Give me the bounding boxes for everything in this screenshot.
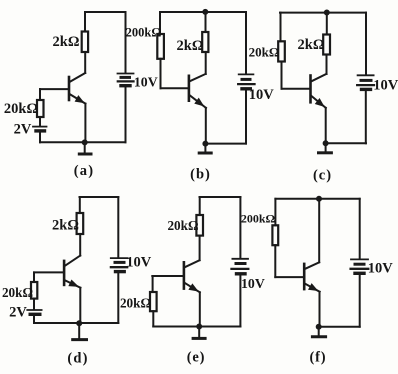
wire: circuit (c) bottom rail bbox=[326, 142, 366, 144]
wire: circuit (c) top rail bbox=[280, 12, 366, 14]
wire: circuit (d) emitter down bbox=[79, 288, 81, 323]
svg-text:(f): (f) bbox=[310, 350, 327, 366]
battery 10V (c) bbox=[358, 74, 374, 76]
wire: circuit (b) mid branch lower bbox=[205, 52, 207, 74]
wire: circuit (e) collector branch lower bbox=[199, 236, 201, 261]
wire: circuit (a) collector branch upper bbox=[84, 12, 86, 32]
transistor (f) NPN bbox=[303, 264, 306, 289]
wire: circuit (a) right rail upper bbox=[125, 12, 127, 73]
svg-text:20kΩ: 20kΩ bbox=[2, 285, 33, 300]
transistor (e) NPN bbox=[183, 262, 186, 288]
wire: 20kΩ to bottom rail (e) bbox=[152, 311, 154, 326]
resistor 20kΩ (e) base bbox=[150, 292, 157, 311]
wire: circuit (b) left branch lower bbox=[160, 59, 162, 89]
wire: circuit (e) emitter down bbox=[199, 292, 201, 326]
transistor (b) NPN bbox=[188, 76, 191, 101]
svg-text:2kΩ: 2kΩ bbox=[53, 34, 80, 50]
wire: circuit (c) right rail upper bbox=[365, 13, 367, 75]
wire: circuit (b) right rail lower bbox=[245, 89, 247, 143]
transistor (d) NPN bbox=[63, 261, 66, 285]
svg-text:20kΩ: 20kΩ bbox=[4, 101, 38, 117]
resistor 2kΩ (d) collector bbox=[77, 213, 84, 234]
transistor (a) NPN bbox=[68, 77, 71, 100]
node: emitter junction (f) bbox=[316, 324, 321, 329]
svg-text:2V: 2V bbox=[9, 305, 27, 321]
wire: circuit (b) emitter down bbox=[205, 108, 207, 144]
wire: circuit (a) bottom rail bbox=[40, 141, 126, 143]
wire: circuit (d) collector branch lower bbox=[79, 234, 81, 256]
wire: circuit (f) bottom rail bbox=[319, 326, 360, 328]
wire: circuit (f) collector branch bbox=[318, 199, 320, 262]
battery 10V (a) bbox=[118, 73, 134, 75]
wire: circuit (c) left branch lower bbox=[281, 62, 283, 89]
wire: circuit (e) base branch down bbox=[152, 276, 154, 292]
wire: 20kΩ to 2V battery (a) bbox=[39, 117, 41, 126]
wire: circuit (e) right rail upper bbox=[239, 197, 241, 258]
wire: circuit (c) mid branch upper bbox=[326, 13, 328, 35]
resistor 20kΩ (a) base bbox=[37, 100, 44, 117]
battery 10V (d) bbox=[111, 257, 128, 259]
wire: circuit (d) base branch down bbox=[33, 272, 35, 282]
resistor 200kΩ (f) base bbox=[272, 225, 278, 245]
wire: circuit (a) base branch down bbox=[39, 89, 41, 100]
wire: circuit (b) base wire bbox=[161, 87, 189, 89]
wire: circuit (a) top rail bbox=[85, 11, 126, 13]
wire: circuit (b) bottom rail bbox=[205, 143, 246, 145]
wire: circuit (f) left branch upper bbox=[274, 199, 276, 226]
svg-text:10V: 10V bbox=[368, 261, 394, 277]
wire: 20kΩ to 2V battery (d) bbox=[33, 299, 35, 310]
wire: circuit (c) left branch upper bbox=[280, 13, 282, 42]
svg-text:10V: 10V bbox=[134, 75, 158, 90]
wire: circuit (d) base wire bbox=[34, 271, 64, 273]
svg-text:2kΩ: 2kΩ bbox=[52, 218, 79, 234]
battery 10V (b) bbox=[239, 73, 254, 75]
svg-text:10V: 10V bbox=[241, 276, 265, 291]
svg-text:(c): (c) bbox=[313, 168, 332, 184]
wire: circuit (e) base wire bbox=[152, 275, 183, 277]
ground (c) bbox=[325, 143, 327, 152]
wire: circuit (f) right rail lower bbox=[359, 274, 361, 327]
wire: circuit (f) top rail bbox=[275, 198, 359, 200]
node: emitter junction (c) bbox=[323, 141, 328, 146]
battery 10V (e) bbox=[232, 258, 248, 260]
wire: circuit (b) mid branch upper bbox=[205, 12, 207, 32]
wire: circuit (d) collector branch upper bbox=[79, 197, 81, 213]
svg-text:10V: 10V bbox=[126, 255, 152, 271]
node: top rail junction (c) bbox=[324, 10, 329, 15]
wire: circuit (f) base wire bbox=[275, 276, 303, 278]
resistor 2kΩ (a) collector bbox=[82, 32, 88, 53]
wire: circuit (c) base wire bbox=[282, 88, 311, 90]
wire: circuit (c) right rail lower bbox=[365, 90, 367, 144]
wire: circuit (a) collector branch lower bbox=[84, 52, 86, 73]
node: emitter junction (e) bbox=[197, 324, 202, 329]
resistor 2kΩ (b) collector bbox=[202, 32, 208, 52]
wire: circuit (d) right rail upper bbox=[117, 197, 119, 257]
ground (d) bbox=[78, 323, 80, 339]
wire: circuit (e) right rail lower bbox=[239, 274, 241, 326]
svg-text:(b): (b) bbox=[190, 167, 211, 183]
ground (a) bbox=[84, 142, 86, 153]
node: emitter junction (a) bbox=[82, 140, 87, 145]
svg-text:(e): (e) bbox=[187, 350, 206, 366]
wire: circuit (b) top rail bbox=[160, 11, 246, 13]
wire: 2V battery to bottom rail (a) bbox=[39, 133, 41, 143]
resistor 20kΩ (d) base bbox=[31, 282, 37, 299]
wire: circuit (b) left branch upper bbox=[159, 12, 161, 34]
svg-text:20kΩ: 20kΩ bbox=[167, 218, 198, 233]
svg-text:(a): (a) bbox=[74, 163, 95, 179]
node: top rail junction (b) bbox=[203, 9, 208, 14]
svg-text:200kΩ: 200kΩ bbox=[241, 211, 276, 225]
battery 2V (a) bbox=[33, 126, 47, 128]
wire: circuit (f) left branch lower bbox=[274, 245, 276, 277]
wire: circuit (f) emitter down bbox=[319, 292, 321, 327]
wire: circuit (a) emitter down bbox=[84, 104, 86, 143]
svg-text:2kΩ: 2kΩ bbox=[298, 37, 325, 53]
svg-text:20kΩ: 20kΩ bbox=[120, 296, 151, 311]
node: emitter junction (d) bbox=[77, 321, 82, 326]
svg-text:(d): (d) bbox=[67, 351, 88, 367]
wire: circuit (c) emitter down bbox=[325, 108, 327, 143]
wire: circuit (e) top rail bbox=[200, 196, 241, 198]
ground (f) bbox=[318, 327, 320, 337]
wire: circuit (d) right rail lower bbox=[117, 272, 119, 323]
wire: circuit (c) mid branch lower bbox=[326, 55, 328, 74]
ground (b) bbox=[204, 144, 206, 153]
transistor (c) NPN bbox=[309, 76, 312, 103]
wire: circuit (e) bottom rail bbox=[153, 326, 240, 328]
wire: 2V battery to bottom rail (d) bbox=[33, 316, 35, 323]
svg-text:20kΩ: 20kΩ bbox=[249, 45, 280, 60]
battery 10V (f) bbox=[351, 258, 368, 260]
svg-text:10V: 10V bbox=[249, 87, 275, 103]
wire: circuit (a) right rail lower bbox=[125, 87, 127, 143]
wire: circuit (d) bottom rail bbox=[34, 322, 118, 324]
svg-text:2kΩ: 2kΩ bbox=[177, 38, 204, 54]
wire: circuit (a) base wire bbox=[40, 88, 69, 90]
ground (e) bbox=[198, 327, 200, 338]
wire: circuit (f) right rail upper bbox=[359, 199, 361, 259]
battery 2V (d) bbox=[27, 309, 41, 311]
node: top rail junction (f) bbox=[317, 196, 322, 201]
resistor 20kΩ (c) base bbox=[278, 41, 285, 61]
wire: circuit (b) right rail upper bbox=[245, 12, 247, 74]
resistor 2kΩ (c) collector bbox=[323, 35, 330, 55]
svg-text:200kΩ: 200kΩ bbox=[126, 26, 162, 40]
svg-text:10V: 10V bbox=[373, 78, 398, 94]
node: emitter junction (b) bbox=[203, 141, 208, 146]
resistor 200kΩ (b) base bbox=[157, 34, 164, 59]
resistor 20kΩ (e) collector bbox=[196, 215, 203, 236]
svg-text:2V: 2V bbox=[14, 122, 32, 138]
wire: circuit (e) collector branch upper bbox=[199, 197, 201, 215]
wire: circuit (d) top rail bbox=[80, 196, 119, 198]
